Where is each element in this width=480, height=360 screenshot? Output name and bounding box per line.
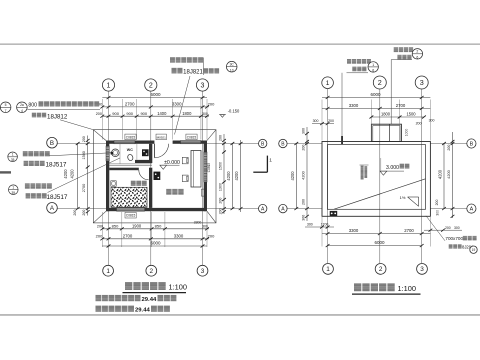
svg-text:1800: 1800 [381,112,391,117]
roof dim 1800/1500 [371,116,424,118]
roof drain [330,211,338,216]
svg-text:4200: 4200 [290,171,295,181]
WC partition vertical [149,144,152,160]
apron corner miter BL [93,211,106,223]
svg-text:3C: 3C [230,63,235,67]
roof dim 6000 bottom [328,245,422,247]
basin tap [111,152,113,155]
svg-text:4200: 4200 [234,171,239,181]
chimney/vent shaft [371,124,401,141]
floor plan grid line 1 [108,91,110,265]
svg-text:1: 1 [326,80,330,87]
svg-text:3300: 3300 [174,233,184,238]
desk [191,151,201,188]
svg-text:B: B [50,140,54,147]
svg-text:1: 1 [12,186,14,190]
dim row 200/2700/3300/200 top [102,106,209,108]
svg-text:1: 1 [107,83,111,90]
tag C0815 bottom [125,212,136,218]
svg-text:200: 200 [447,145,451,151]
WC lower thin wall lines [109,163,152,165]
svg-text:1800: 1800 [182,111,192,116]
svg-text:19: 19 [472,248,476,252]
svg-text:3300: 3300 [194,220,202,224]
roof grid line 2 [379,89,381,263]
svg-text:300: 300 [436,210,440,216]
dim row 6000 top [102,97,207,99]
svg-text:1900: 1900 [132,223,142,228]
right wall segments [204,141,207,153]
dim row 200/2700/3300/200 bottom [102,238,209,240]
svg-text:39: 39 [12,191,16,195]
wall fixture block [142,149,149,156]
svg-text:300: 300 [313,119,319,123]
svg-text:2700: 2700 [123,233,133,238]
tag C0815 top-right [186,134,197,140]
svg-text:1500: 1500 [219,162,223,170]
svg-text:300: 300 [202,112,208,116]
roof grid bubble 2 bottom [375,264,386,275]
roof grid line 3 [421,89,423,263]
left dim col total 4200 [77,144,79,209]
svg-text:±0.000: ±0.000 [164,160,180,166]
dim row segments bottom [102,228,209,230]
svg-text:2700: 2700 [404,228,414,233]
grid bubble A left [47,203,58,214]
grid bubble 3 bottom [197,265,208,276]
roof right dim segments [452,132,454,218]
apron corner miter TR [207,130,216,141]
svg-text:4200: 4200 [437,169,442,179]
svg-text:200: 200 [208,233,215,238]
svg-text:200: 200 [435,200,439,206]
svg-text:2: 2 [378,78,382,87]
text: duty room [166,189,171,195]
leader to apron corner [60,120,93,130]
svg-text:3: 3 [201,268,205,275]
svg-text:850: 850 [112,223,119,228]
svg-text:700x700: 700x700 [445,236,463,241]
svg-text:1: 1 [269,158,272,164]
text: outdoor steps see [170,57,175,62]
partition B vertical [149,168,152,208]
roof extension lines top [321,100,323,141]
roof dim 3300/2700 top [322,107,430,109]
svg-text:2: 2 [149,83,153,90]
leader to roof hatch [426,216,445,241]
svg-text:2700: 2700 [396,103,406,108]
roof left dim 4200 [295,144,297,209]
svg-text:200: 200 [73,210,77,216]
svg-text:18J517: 18J517 [47,194,68,201]
note: floor area text 2 [96,306,102,312]
grid bubble 2 bottom [146,265,157,276]
svg-text:1400: 1400 [157,111,167,116]
grid bubble 2 top [145,79,157,91]
roof note vertical text [361,166,364,180]
svg-text:300: 300 [302,128,306,134]
svg-text:200: 200 [302,199,306,205]
text: rest room [131,181,136,186]
leader to entrance [175,76,191,135]
text: squat toilet method [25,183,30,188]
svg-text:3.000: 3.000 [386,165,399,171]
left dim col segments [87,136,89,216]
title: roof plan 1:100 [354,283,361,291]
grid bubble A right [259,204,267,212]
roof grid bubble B right [467,139,476,148]
text: gutter detail [394,47,398,52]
svg-text:WC: WC [127,148,133,152]
svg-text:1:100: 1:100 [398,284,417,293]
grid bubble B right [259,139,267,147]
svg-text:3300: 3300 [172,102,182,107]
note: washbasin detail (1/35) [8,152,18,162]
svg-text:300: 300 [202,224,208,228]
svg-text:4200: 4200 [226,171,231,181]
svg-text:5: 5 [5,103,7,107]
extension lines top [101,99,103,140]
roof outer edge [322,142,430,217]
WC shower screen lines [119,144,121,164]
svg-text:200: 200 [219,208,223,214]
svg-text:200: 200 [96,233,103,238]
window C0815 right wall [204,152,207,182]
svg-text:3: 3 [420,78,424,87]
restroom north wall [109,168,139,171]
leader to squat toilet [48,158,121,193]
right dim col 4200 b [240,140,242,212]
grid bubble 1 bottom [103,265,114,276]
right dim col 4200 a [231,144,233,209]
window C0815 top-left [114,141,135,144]
svg-text:2700: 2700 [125,102,135,107]
svg-text:900: 900 [112,111,119,116]
svg-text:200: 200 [219,198,223,204]
apron (sanshui) outline [93,130,216,223]
svg-text:300: 300 [302,215,306,221]
grid bubble B left [47,137,58,148]
svg-text:29.44: 29.44 [142,297,157,303]
svg-text:200: 200 [302,145,306,151]
svg-text:200: 200 [82,210,86,216]
svg-text:1700: 1700 [321,223,329,227]
window left wall WC [106,146,109,161]
svg-text:6000: 6000 [150,241,161,246]
svg-text:2a: 2a [20,103,24,107]
window C0815 bottom [117,208,145,211]
roof grid line A [287,208,322,210]
floor plan grid line A [58,208,107,210]
svg-text:200: 200 [82,136,86,142]
left margin dash [0,171,11,173]
svg-text:200: 200 [416,121,422,125]
svg-text:4: 4 [21,109,23,113]
svg-text:7: 7 [5,109,7,113]
svg-text:-0.150: -0.150 [228,109,240,114]
bottom wall segments [106,208,117,211]
svg-text:2700: 2700 [82,184,86,192]
svg-text:4200: 4200 [63,169,68,179]
radiator [201,189,205,196]
svg-text:3: 3 [420,266,424,273]
svg-text:4200: 4200 [301,170,306,179]
roof right dim 4200 a [443,144,445,209]
detail bubble 2a/4 [17,102,28,113]
apron corner miter BR [207,211,216,223]
svg-text:200: 200 [445,226,451,230]
roof grid bubble B left [279,139,287,147]
roof grid bubble 3 top [415,76,428,89]
svg-text:C0815: C0815 [207,163,211,173]
svg-text:6: 6 [416,55,418,59]
svg-text:1300: 1300 [219,183,223,191]
grid bubble 3 top [196,79,208,91]
svg-text:C0815: C0815 [126,135,136,139]
roof dim 6000 top [322,96,430,98]
svg-text:18J812: 18J812 [47,113,68,120]
svg-text:800: 800 [28,102,37,108]
section mark 1 [253,171,267,173]
leader to chimney [390,60,392,125]
entrance door M0921 leaf [154,144,156,158]
svg-text:2: 2 [416,50,418,54]
left wall segments [106,141,109,147]
roof grid bubble 3 bottom [417,264,428,275]
svg-text:3300: 3300 [349,103,359,108]
roof grid line B [287,143,322,145]
roof dim 3300/2700 bottom [322,233,430,235]
roof small dims left [312,123,334,125]
entrance door M0921 swing arc [155,144,169,158]
washbasin [112,149,120,157]
roof grid line 1 [327,89,329,263]
note: floor area text 1 [96,295,102,301]
svg-text:A: A [470,207,474,213]
bedside table [111,181,116,186]
svg-text:6000: 6000 [374,240,385,245]
svg-text:4200: 4200 [446,169,451,178]
text: washbasin method [23,151,28,156]
svg-text:29.44: 29.44 [135,308,150,314]
svg-text:6000: 6000 [370,92,381,97]
svg-text:35: 35 [11,158,15,162]
squat toilet [127,154,134,162]
roof slope diagonal [334,179,426,209]
svg-text:300: 300 [454,226,460,230]
leader to parapet [341,73,343,139]
svg-text:300: 300 [429,119,435,123]
svg-text:200: 200 [328,119,334,123]
chair 2 [182,175,188,182]
svg-text:200: 200 [219,135,223,141]
roof extension lines bottom [321,217,323,247]
svg-text:1: 1 [106,268,110,275]
bed with hatch [111,187,147,207]
title: first floor plan 1:100 [125,282,132,290]
svg-text:900: 900 [126,111,133,116]
svg-text:1000: 1000 [404,129,408,137]
tag M0921 top [156,134,166,140]
svg-text:6000: 6000 [150,92,161,97]
floor plan grid line 2 [150,91,152,265]
svg-text:300: 300 [307,223,313,227]
svg-text:1: 1 [326,266,330,273]
roof grid bubble A right [467,204,476,213]
roof grid bubble A left [279,204,287,212]
svg-text:C0815: C0815 [187,135,197,139]
detail bubble 5/7 [0,102,11,113]
sheet top border line [0,43,480,45]
svg-text:10: 10 [230,68,234,72]
roof bottom small dims right [424,229,462,231]
svg-text:200: 200 [96,112,102,116]
grid bubble 1 top [102,79,114,91]
svg-text:1500: 1500 [406,112,416,117]
note: squat toilet detail (1/39) [9,185,19,195]
chimney divider [389,124,391,141]
dim row 6000 bottom [102,245,207,247]
roof bottom small dims left [305,226,334,228]
svg-text:18J821: 18J821 [183,69,203,75]
top wall segments [106,141,114,144]
svg-text:2: 2 [379,266,383,273]
WC partition stub [135,160,152,163]
floor plan grid line B [58,143,107,145]
sheet bottom border line [0,314,480,316]
svg-text:1: 1 [12,153,14,157]
text: see southwest 18J517 [26,193,31,198]
apron corner miter TL [93,130,106,141]
roof grid bubble 1 top [322,77,334,89]
svg-text:M0921: M0921 [157,135,167,139]
text: parapet detail [347,59,351,64]
roof grid bubble 1 bottom [323,264,334,275]
floor plan grid line 3 [202,91,204,265]
svg-text:3300: 3300 [349,228,359,233]
dim row segments top [102,115,209,117]
restroom door leaf+arc [139,170,149,180]
roof left dim segments [306,127,308,221]
roof parapet inner edge [327,145,425,210]
chair 1 [182,157,188,164]
roof grid bubble 2 top [373,76,386,89]
text: see southwest [32,113,36,118]
svg-text:1%: 1% [400,195,406,200]
text: see detail 8J201 [449,244,453,248]
svg-text:4200: 4200 [69,169,74,179]
svg-text:6: 6 [372,69,374,73]
tag C0815 top-left [125,134,136,140]
window C0815 top-right [181,141,201,144]
svg-text:850: 850 [155,223,162,228]
text: see southwest 18J517 [24,161,29,166]
svg-text:1:100: 1:100 [169,283,188,292]
svg-text:B: B [470,141,474,147]
column/flue block [154,172,161,180]
right dim col segments [223,134,225,214]
svg-text:2: 2 [150,268,154,275]
svg-text:900: 900 [140,111,147,116]
svg-text:C0815: C0815 [126,214,136,218]
svg-text:3: 3 [201,83,205,90]
detail bubble 3C/10 [226,61,237,72]
leader to washbasin [49,153,111,156]
svg-text:18J517: 18J517 [46,162,67,169]
extension lines bottom [101,212,103,247]
svg-text:1: 1 [372,63,374,67]
svg-text:200: 200 [208,102,215,107]
svg-text:1500: 1500 [82,151,86,159]
svg-text:200: 200 [97,224,103,228]
